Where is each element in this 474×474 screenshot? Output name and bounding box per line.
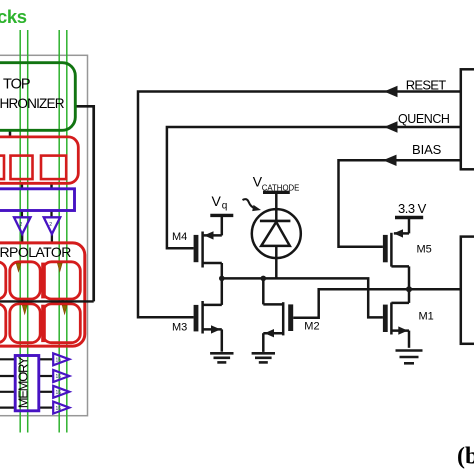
svg-text:3.3 V: 3.3 V [398,201,427,216]
svg-text:V: V [212,193,222,209]
svg-text:16: 16 [56,390,62,396]
svg-text:16: 16 [56,358,62,364]
svg-text:2: 2 [20,222,23,228]
svg-text:CATHODE: CATHODE [262,183,300,192]
svg-text:cks: cks [0,6,27,27]
svg-text:(b: (b [457,444,474,470]
svg-text:QUENCH: QUENCH [398,112,450,126]
svg-text:M1: M1 [419,310,434,322]
svg-text:RESET: RESET [406,78,446,93]
svg-text:TOP: TOP [3,76,30,92]
svg-text:HRONIZER: HRONIZER [0,96,65,111]
svg-text:RPOLATOR: RPOLATOR [0,244,71,260]
svg-text:MEMORY: MEMORY [15,356,30,408]
svg-text:M3: M3 [172,321,187,333]
svg-text:M4: M4 [172,231,187,243]
svg-text:16: 16 [56,406,62,412]
svg-text:M2: M2 [304,320,319,332]
svg-text:16: 16 [56,374,62,380]
svg-text:q: q [222,200,228,211]
svg-text:BIAS: BIAS [412,142,442,157]
svg-text:M5: M5 [417,243,432,255]
svg-text:2: 2 [49,222,52,228]
